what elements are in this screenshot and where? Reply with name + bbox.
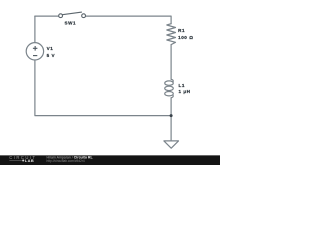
svg-text:http://circuitlab.com/c9d2r4: http://circuitlab.com/c9d2r4 xyxy=(47,159,85,163)
svg-text:5 V: 5 V xyxy=(47,53,56,58)
svg-text:LAB: LAB xyxy=(25,158,34,163)
svg-text:R1: R1 xyxy=(178,28,185,33)
svg-text:100 Ω: 100 Ω xyxy=(178,35,193,40)
svg-text:V1: V1 xyxy=(47,46,54,51)
svg-text:1 µH: 1 µH xyxy=(179,89,191,94)
svg-text:SW1: SW1 xyxy=(65,21,77,26)
svg-text:L1: L1 xyxy=(179,83,185,88)
